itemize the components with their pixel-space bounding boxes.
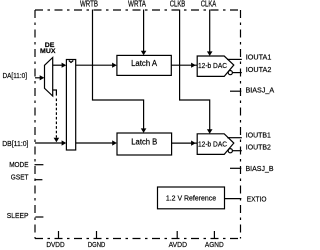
svg-text:IOUTB2: IOUTB2: [246, 143, 271, 152]
reference box (1.2 V Reference): [158, 187, 225, 209]
wire register to Latch A: [76, 64, 113, 66]
bubble IOUTA2: [228, 71, 232, 75]
latch B box: [117, 133, 172, 155]
wire WRTB to Latch B clock: [93, 10, 144, 129]
arrowhead into DAC B: [191, 141, 196, 146]
arrowhead WRTA into Latch A: [141, 51, 147, 56]
wire AVDD tick: [176, 231, 178, 239]
svg-text:IOUTA1: IOUTA1: [246, 52, 272, 61]
wire MODE tick: [35, 164, 44, 166]
svg-text:IOUTB1: IOUTB1: [246, 130, 271, 139]
svg-text:CLKB: CLKB: [170, 0, 186, 9]
wire IOUTB1: [227, 137, 242, 139]
wire GSET tick: [35, 179, 43, 181]
arrowhead into Latch B: [112, 140, 117, 145]
wire demux to input register: [53, 64, 62, 66]
DAC A (12-b DAC): [197, 56, 234, 76]
svg-text:Latch B: Latch B: [131, 137, 157, 146]
arrowhead WRTB into Latch B: [141, 128, 147, 133]
svg-text:AVDD: AVDD: [169, 240, 188, 249]
wire EXTIO: [225, 198, 242, 200]
register clock notch: [69, 61, 74, 63]
svg-text:CLKA: CLKA: [201, 0, 217, 9]
arrowhead into DAC A: [191, 63, 196, 68]
wire register to Latch B: [76, 142, 113, 144]
arrowhead CLKA into DAC A: [207, 51, 213, 56]
svg-text:GSET: GSET: [11, 172, 29, 181]
svg-text:12-b DAC: 12-b DAC: [198, 141, 227, 148]
arrowhead CLKB into DAC B: [207, 129, 213, 134]
svg-text:WRTA: WRTA: [128, 0, 147, 9]
arrowhead into Latch A: [112, 63, 117, 68]
wire CLKA to DAC A clock: [209, 10, 211, 52]
svg-text:Latch A: Latch A: [131, 59, 158, 68]
latch A box: [117, 55, 171, 75]
wire BIASJ_B tick: [230, 167, 241, 169]
svg-text:DVDD: DVDD: [46, 240, 65, 249]
svg-text:EXTIO: EXTIO: [247, 195, 267, 204]
svg-text:DGND: DGND: [88, 240, 106, 249]
wire CLKB to DAC B clock: [180, 10, 210, 130]
wire DB input: [35, 142, 62, 144]
wire SLEEP tick: [35, 216, 43, 218]
svg-text:1.2 V Reference: 1.2 V Reference: [166, 193, 216, 202]
svg-text:BIASJ_B: BIASJ_B: [246, 164, 274, 173]
wire AGND tick: [213, 231, 215, 239]
demux U1 (trapezoid): [45, 58, 53, 97]
wire Latch A to DAC A: [171, 64, 197, 66]
arrowhead demux-dashed onto DB wire: [54, 138, 60, 143]
wire DA input: [35, 77, 40, 79]
svg-text:WRTB: WRTB: [80, 0, 98, 9]
wire BIASJ_A tick: [230, 90, 241, 92]
demux lower output tab: [53, 90, 57, 96]
svg-text:12-b DAC: 12-b DAC: [198, 63, 227, 70]
wire IOUTB2: [232, 150, 241, 152]
svg-text:SLEEP: SLEEP: [7, 211, 29, 220]
svg-text:DA[11:0]: DA[11:0]: [3, 71, 28, 80]
wire Latch B to DAC B: [172, 142, 197, 144]
wire DGND tick: [96, 231, 98, 239]
arrowhead into register (A row): [62, 63, 67, 68]
input register (tall rectangle): [66, 60, 75, 151]
chip boundary (dash-dot border): [35, 10, 241, 239]
svg-text:IOUTA2: IOUTA2: [246, 65, 272, 74]
svg-text:MUX: MUX: [40, 48, 56, 55]
wire IOUTA2: [232, 72, 241, 74]
DAC B (12-b DAC): [197, 134, 234, 155]
wire DVDD tick: [58, 231, 60, 239]
svg-text:MODE: MODE: [9, 160, 28, 169]
wire WRTA to Latch A clock: [143, 10, 145, 52]
svg-text:AGND: AGND: [205, 240, 224, 249]
svg-text:BIASJ_A: BIASJ_A: [246, 85, 275, 94]
wire IOUTA1: [227, 58, 242, 60]
arrowhead DA into demux: [40, 75, 45, 80]
bubble IOUTB2: [228, 149, 232, 153]
arrowhead DB into register: [62, 140, 67, 145]
svg-text:DB[11:0]: DB[11:0]: [2, 139, 28, 148]
dashed wire demux to DB bus: [55, 99, 57, 138]
